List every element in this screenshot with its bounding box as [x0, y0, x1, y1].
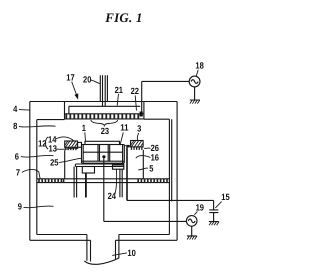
svg-text:24: 24: [108, 191, 116, 201]
svg-text:23: 23: [101, 126, 109, 136]
svg-text:17: 17: [66, 72, 74, 82]
center rod wire to AC 19: [104, 159, 187, 222]
gas pipe 20: [100, 75, 107, 106]
gas holes 23 teeth: [65, 114, 139, 119]
svg-text:4: 4: [13, 104, 17, 114]
svg-text:FIG. 1: FIG. 1: [104, 10, 142, 25]
right foot box: [113, 165, 124, 169]
wafer 1: [85, 141, 120, 144]
susceptor body 16: [82, 145, 125, 164]
wire from RF source 18 to electrode: [142, 81, 190, 111]
svg-text:5: 5: [149, 164, 153, 174]
svg-text:18: 18: [195, 60, 203, 70]
inner vessel extra right line: [171, 119, 173, 201]
upper electrode box sides: [65, 102, 144, 119]
RF rod from susceptor contact: [126, 147, 128, 200]
svg-text:1: 1: [82, 123, 86, 133]
small box right of left clamp: [78, 142, 82, 147]
svg-text:21: 21: [115, 85, 123, 95]
brace for 23: [91, 120, 118, 126]
baffle teeth right: [137, 179, 167, 183]
svg-text:13: 13: [49, 144, 57, 154]
svg-text:6: 6: [15, 151, 19, 161]
ring side walls: [65, 150, 144, 179]
left rod: [85, 173, 87, 198]
svg-text:22: 22: [131, 86, 139, 96]
right clamp hatch 3: [131, 141, 144, 147]
RF contact block on electrode: [140, 112, 143, 117]
baffle plate lines: [37, 179, 170, 183]
exhaust pipe 10: [87, 235, 119, 262]
svg-text:15: 15: [221, 192, 229, 202]
chamber outer wall 4: [30, 102, 177, 241]
shower electrode band 22: [65, 114, 144, 119]
svg-text:20: 20: [83, 75, 91, 85]
svg-text:26: 26: [151, 143, 159, 153]
left clamp teeth 13: [65, 147, 77, 150]
svg-text:7: 7: [16, 167, 20, 177]
svg-text:9: 9: [18, 202, 22, 212]
electrode plate 21: [69, 106, 140, 114]
svg-text:19: 19: [196, 203, 204, 213]
center electrode dot: [102, 155, 105, 158]
svg-text:10: 10: [127, 248, 135, 258]
baffle teeth left: [38, 179, 64, 183]
svg-text:8: 8: [13, 121, 17, 131]
right clamp teeth 26: [131, 147, 143, 150]
left legs: [74, 167, 77, 198]
left foot box: [82, 167, 94, 174]
RF source 18 circle: [189, 76, 200, 87]
svg-text:16: 16: [151, 153, 159, 163]
svg-text:25: 25: [50, 158, 58, 168]
right legs 24: [120, 169, 122, 197]
left clamp hatch 14: [65, 141, 78, 147]
support bar under susceptor: [75, 164, 124, 167]
wire to capacitor 15: [127, 200, 214, 210]
black contact square 26 side: [126, 145, 130, 148]
ground under 18: [190, 87, 200, 100]
AC source 19: [186, 216, 197, 227]
inner vessel 8: [37, 119, 170, 234]
capacitor 15: [209, 210, 219, 222]
svg-text:11: 11: [120, 123, 128, 133]
svg-text:3: 3: [137, 123, 141, 133]
